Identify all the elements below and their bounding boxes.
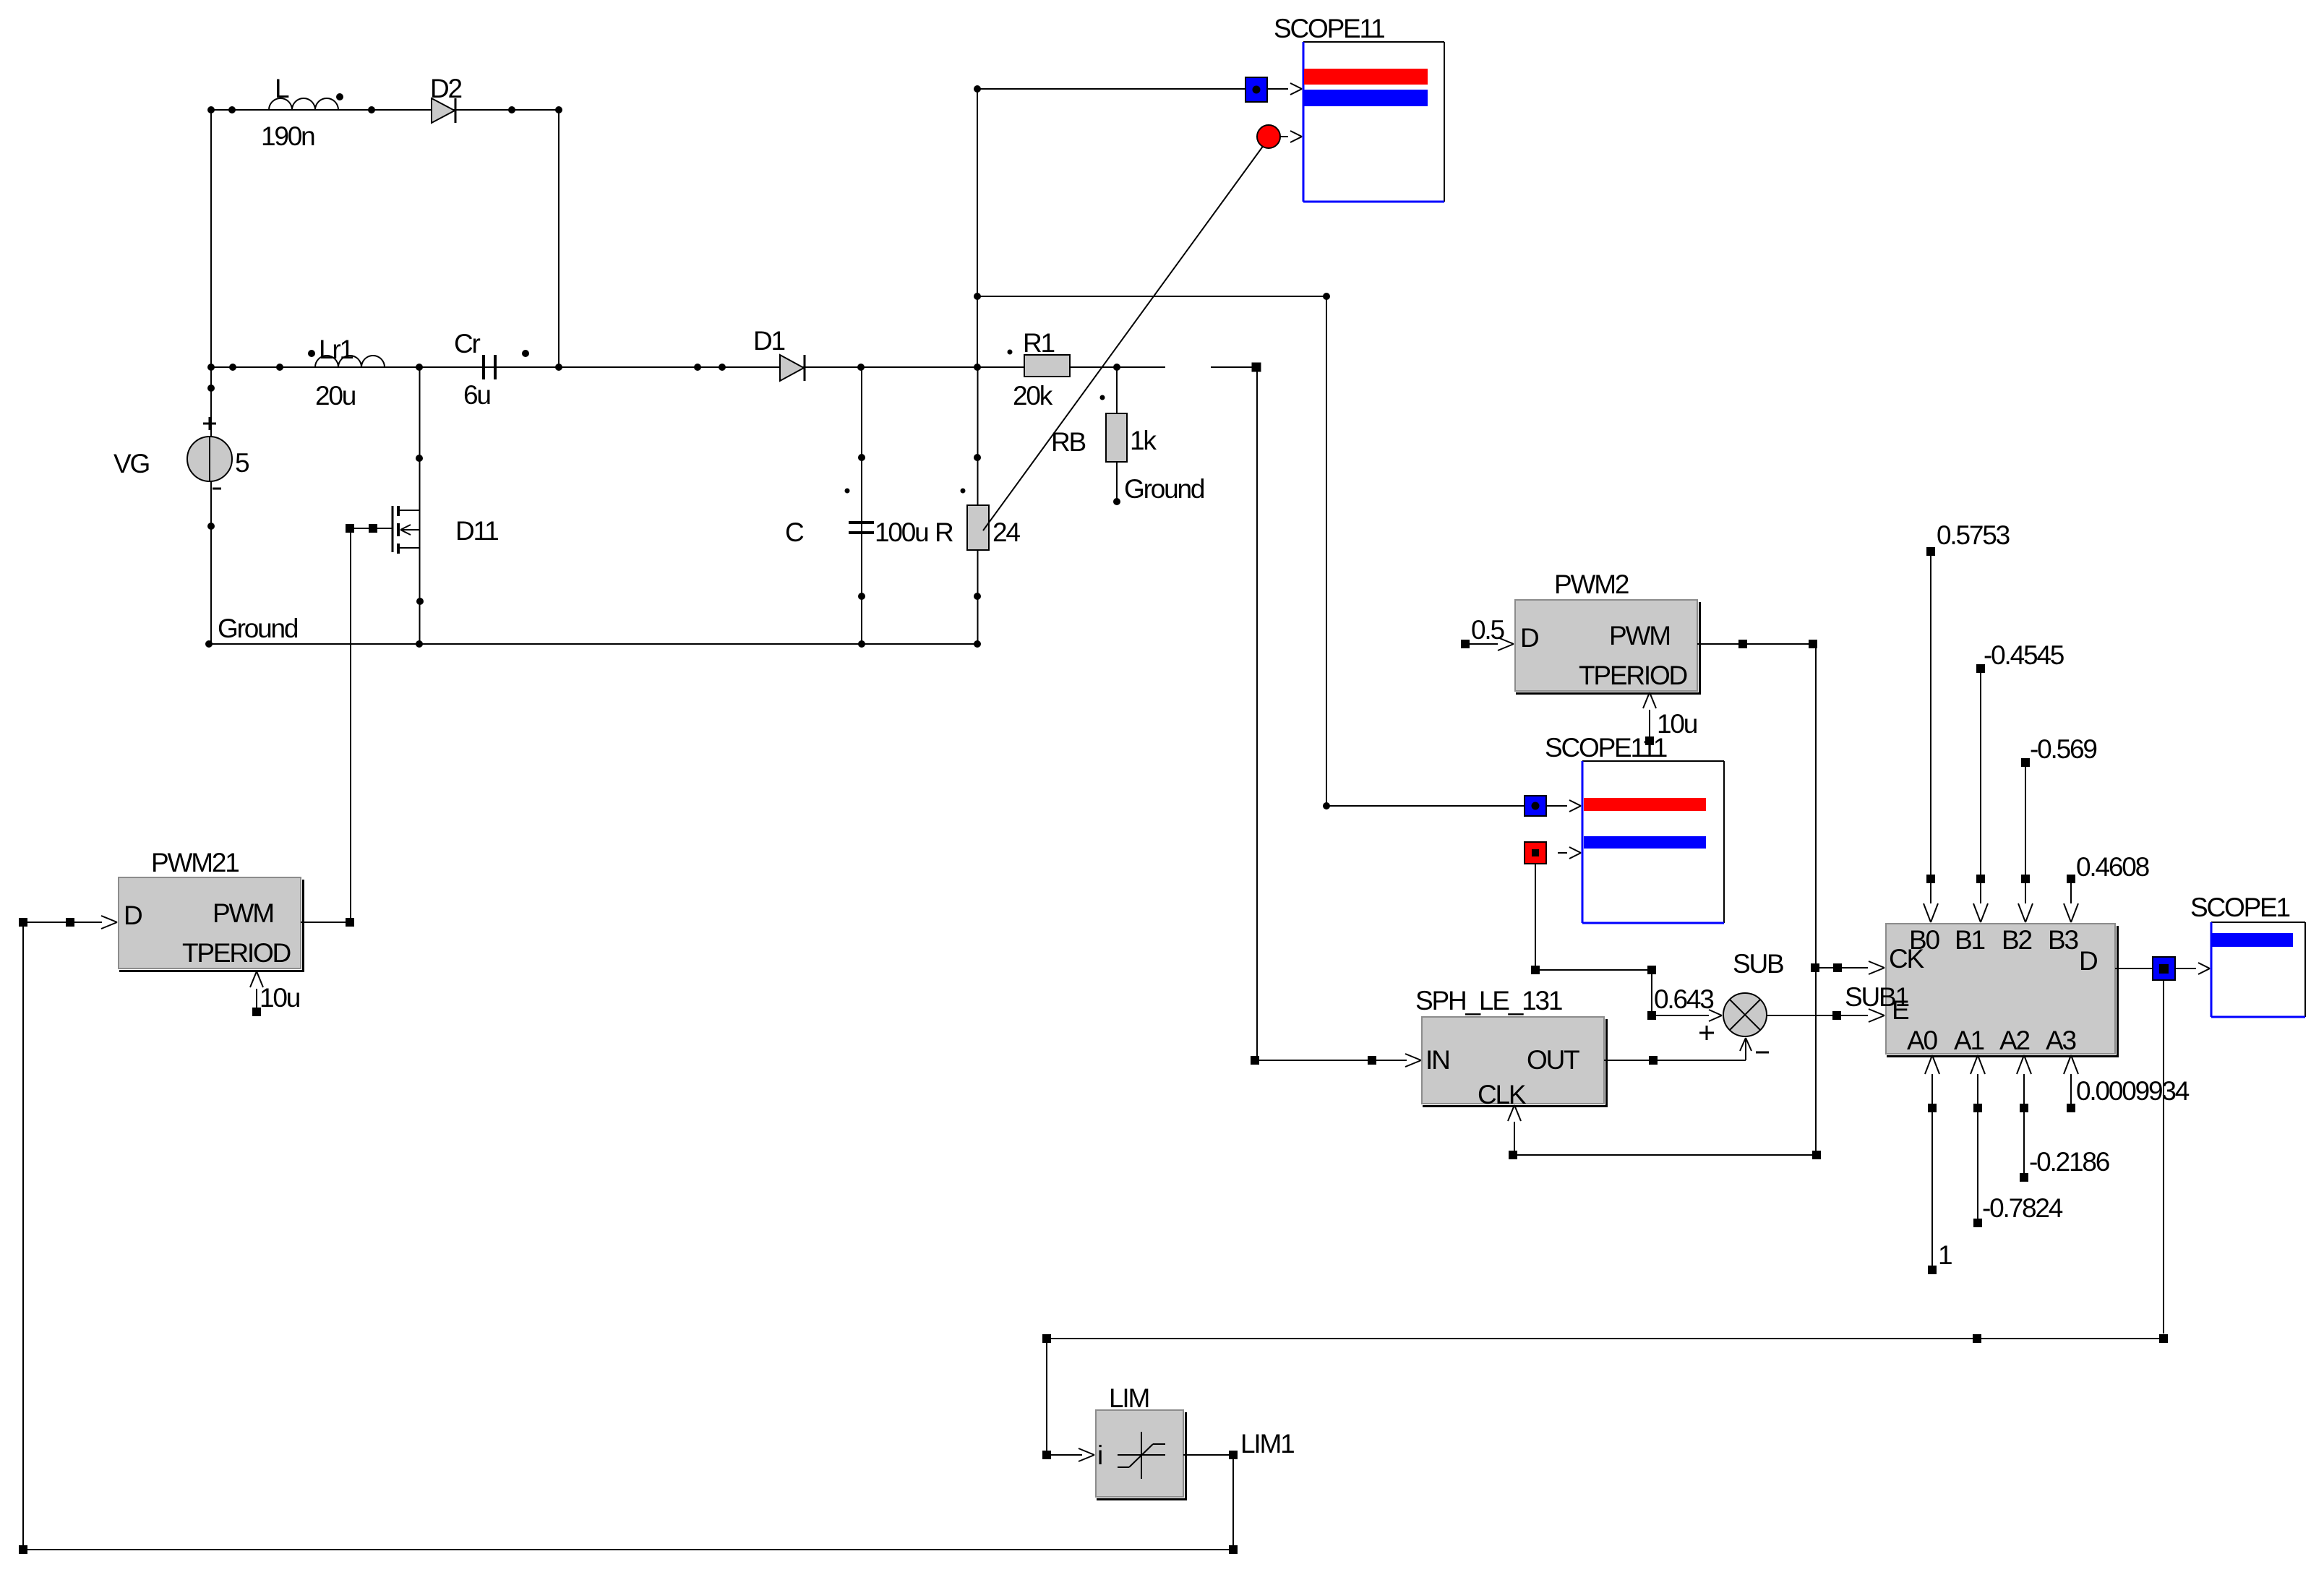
value 0.0009934 (A3) (2064, 1055, 2190, 1112)
block PWM21 (119, 848, 304, 972)
value 0.5753 (B0) (1924, 520, 2010, 922)
svg-text:D: D (2079, 946, 2097, 976)
svg-text:24: 24 (992, 517, 1020, 547)
wire main mid horizontal (211, 366, 1165, 368)
probe marker red circle (SCOPE11 ch2) (1257, 125, 1302, 148)
svg-text:SCOPE11: SCOPE11 (1274, 14, 1384, 43)
svg-text:B2: B2 (2002, 925, 2031, 955)
wire probe mid horizontal y410 (977, 296, 1326, 297)
svg-text:0.5753: 0.5753 (1937, 520, 2010, 550)
svg-text:R1: R1 (1023, 328, 1055, 358)
capacitor Cr (454, 329, 495, 410)
wire from red marker to SUB (1531, 864, 1722, 1021)
svg-text:0.5: 0.5 (1471, 615, 1504, 645)
wire PWM21 output (301, 918, 354, 927)
component anchor dots (845, 350, 1105, 494)
svg-text:-0.4545: -0.4545 (1984, 640, 2064, 670)
svg-text:D1: D1 (753, 326, 785, 356)
scope SCOPE111 (1545, 733, 1724, 923)
wire top loop horizontal (211, 109, 559, 111)
wire RB branch vertical (1116, 367, 1118, 502)
svg-text:B1: B1 (1955, 925, 1984, 955)
wire SPH OUT (1604, 1038, 1751, 1065)
svg-text:20u: 20u (315, 381, 356, 411)
label RB (1051, 427, 1086, 457)
block SUB1 (lookup table) (1845, 924, 2119, 1057)
wire D feedback vertical (2163, 980, 2164, 1333)
value -0.7824 (A1) (1971, 1055, 2063, 1227)
svg-text:SPH_LE_131: SPH_LE_131 (1415, 986, 1562, 1015)
wire junction dots (205, 85, 1330, 809)
svg-text:SCOPE1: SCOPE1 (2190, 893, 2290, 922)
svg-text:0.643: 0.643 (1654, 984, 1713, 1014)
wire probe diagonal RB (983, 142, 1266, 531)
svg-text:IN: IN (1425, 1045, 1449, 1075)
wire clock bottom horizontal (1509, 1151, 1821, 1159)
wire feedback left vertical (22, 927, 24, 1550)
svg-text:Lr1: Lr1 (319, 335, 353, 364)
wire into LIM (1042, 1343, 1094, 1461)
node Ground (left) (218, 614, 298, 643)
svg-text:D2: D2 (430, 74, 462, 103)
svg-text:Cr: Cr (454, 329, 481, 358)
svg-text:CLK: CLK (1478, 1080, 1527, 1109)
wire vertical x1739 to IN (1256, 367, 1258, 1060)
svg-text:-0.2186: -0.2186 (2029, 1147, 2109, 1177)
diode D1 (753, 326, 805, 381)
wire SPH CLK input (1508, 1105, 1521, 1155)
svg-text:R: R (935, 517, 953, 547)
svg-text:-0.569: -0.569 (2030, 734, 2096, 764)
svg-text:1k: 1k (1130, 426, 1157, 455)
wire into SPH IN (1251, 1054, 1421, 1067)
block PWM2 (1515, 570, 1701, 695)
wire R branch vertical (977, 367, 979, 644)
svg-text:Ground: Ground (218, 614, 298, 643)
svg-text:RB: RB (1051, 427, 1086, 457)
resistor RB (1106, 413, 1157, 462)
wire feedback horizontal y1852 (1042, 1334, 2168, 1343)
wire probe top horizontal (977, 88, 1245, 90)
svg-text:OUT: OUT (1527, 1045, 1579, 1075)
wire C branch vertical (861, 367, 862, 644)
svg-text:VG: VG (113, 449, 149, 478)
svg-text:B3: B3 (2048, 925, 2078, 955)
resistor R (935, 505, 1020, 550)
wire ground horizontal (209, 643, 978, 645)
svg-text:0.4608: 0.4608 (2076, 852, 2149, 882)
svg-text:D: D (124, 901, 142, 930)
value 10u (PWM2 TPERIOD) (1643, 692, 1697, 745)
svg-text:A3: A3 (2046, 1026, 2075, 1055)
svg-text:D: D (1520, 623, 1538, 653)
svg-text:A2: A2 (1999, 1026, 2029, 1055)
svg-text:A0: A0 (1907, 1026, 1937, 1055)
inductor Lr1 (315, 335, 385, 411)
svg-text:E: E (1892, 995, 1909, 1025)
value 1 (A0) (1925, 1055, 1952, 1274)
svg-text:0.0009934: 0.0009934 (2076, 1076, 2190, 1106)
probe marker red square (SCOPE111 ch2) (1525, 842, 1581, 864)
value 10u (PWM21 TPERIOD) (250, 971, 300, 1016)
wire link stub to IN node (1211, 366, 1253, 368)
wire D output (2115, 968, 2153, 969)
value 0.643 (1654, 984, 1713, 1014)
probe marker blue square (SCOPE1) (2153, 957, 2210, 980)
scope SCOPE11 (1274, 14, 1444, 202)
wire PWM21 D input (19, 916, 117, 929)
svg-text:190n: 190n (261, 121, 314, 151)
svg-text:TPERIOD: TPERIOD (1579, 661, 1687, 690)
svg-text:i: i (1097, 1440, 1102, 1470)
svg-text:L: L (275, 74, 289, 103)
svg-text:PWM: PWM (1609, 621, 1670, 650)
value 0.5 (PWM2 D) (1461, 615, 1514, 650)
svg-text:PWM: PWM (213, 898, 273, 928)
diode D2 (430, 74, 462, 123)
source VG (113, 417, 249, 489)
wire left vertical (VG branch) (210, 110, 212, 644)
value 0.4608 (B3) (2064, 852, 2149, 922)
svg-text:PWM21: PWM21 (151, 848, 239, 877)
block LIM (1096, 1383, 1187, 1500)
value -0.2186 (A2) (2017, 1055, 2109, 1182)
svg-text:10u: 10u (260, 983, 300, 1013)
summer SUB (1699, 949, 1783, 1052)
wire PWM2 output (1697, 640, 1817, 648)
svg-text:A1: A1 (1954, 1026, 1984, 1055)
block SPH_LE_131 (1415, 986, 1608, 1109)
wire LIM1 down (1229, 1459, 1238, 1554)
svg-text:5: 5 (235, 448, 249, 478)
svg-text:C: C (785, 517, 804, 547)
svg-text:SUB: SUB (1733, 949, 1783, 979)
transistor D11 (MOSFET) (346, 506, 498, 554)
svg-text:TPERIOD: TPERIOD (182, 938, 291, 968)
svg-text:20k: 20k (1013, 381, 1053, 411)
svg-text:CK: CK (1889, 944, 1925, 974)
probe marker blue square (SCOPE11 ch1) (1245, 77, 1302, 102)
value -0.4545 (B1) (1973, 640, 2064, 922)
wire top loop right vertical (558, 110, 559, 367)
svg-text:1: 1 (1938, 1240, 1952, 1270)
value -0.569 (B2) (2018, 734, 2096, 922)
wire probe vertical x1352 (977, 89, 978, 367)
capacitor C (785, 517, 928, 547)
svg-text:D11: D11 (455, 516, 498, 546)
svg-text:-0.7824: -0.7824 (1982, 1193, 2063, 1223)
wire SUB output to E (1767, 1009, 1885, 1022)
wire gate vertical to PWM21 (350, 528, 351, 918)
resistor R1 (1013, 328, 1070, 411)
wire feedback bottom horizontal (19, 1545, 1233, 1554)
svg-text:6u: 6u (463, 380, 490, 410)
svg-text:SCOPE111: SCOPE111 (1545, 733, 1667, 763)
component orientation dots (308, 93, 529, 357)
svg-text:PWM2: PWM2 (1554, 570, 1629, 599)
wire clock vertical x2512 (1815, 644, 1817, 1155)
node Ground (RB) (1124, 474, 1204, 504)
svg-text:100u: 100u (875, 517, 928, 547)
inductor L (261, 74, 338, 151)
wire LIM output (1183, 1429, 1294, 1459)
link node square (1252, 363, 1261, 372)
probe marker blue square (SCOPE111 ch1) (1525, 796, 1581, 816)
svg-text:LIM: LIM (1109, 1383, 1149, 1413)
svg-text:Ground: Ground (1124, 474, 1204, 504)
wire probe vertical x1835 (1326, 296, 1327, 806)
wire MOSFET drain-source vertical (419, 367, 421, 644)
wire to SCOPE111 Vo (1326, 805, 1525, 807)
svg-text:LIM1: LIM1 (1240, 1429, 1294, 1459)
scope SCOPE1 (2190, 893, 2305, 1017)
wire CK input (1811, 961, 1885, 974)
